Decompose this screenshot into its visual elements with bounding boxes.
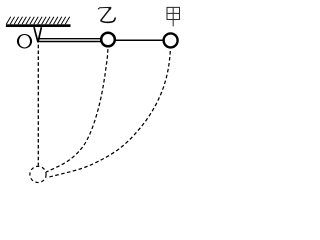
label 甲 [167, 7, 180, 26]
ball 甲 [164, 33, 178, 47]
label O [17, 34, 32, 49]
ceiling bar [6, 24, 71, 27]
ball 乙 [101, 33, 115, 47]
pivot hanger V at O [34, 27, 41, 42]
label 乙 [98, 7, 116, 22]
swing arc of ball 甲 [47, 51, 171, 178]
string ball 乙 to ball 甲 [114, 39, 164, 41]
ceiling hatching [6, 17, 69, 24]
ball at lowest point (dashed circle) [30, 166, 46, 182]
swing arc of ball 乙 [46, 49, 108, 172]
vertical dashed plumb line from O [37, 45, 39, 166]
rod double line O to ball 乙 [39, 38, 101, 40]
